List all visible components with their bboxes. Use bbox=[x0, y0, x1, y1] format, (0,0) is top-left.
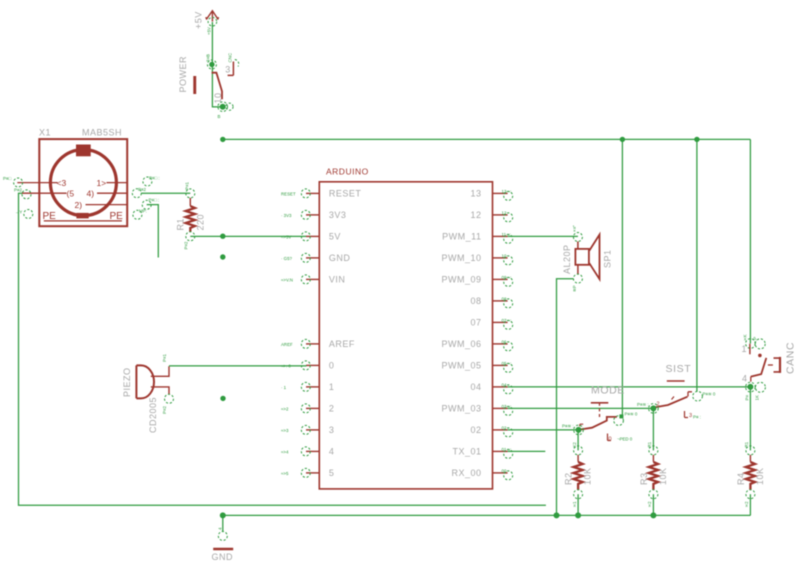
U1 pin 2 bbox=[281, 404, 334, 414]
svg-text:X1: X1 bbox=[39, 128, 51, 138]
svg-text:2: 2 bbox=[329, 404, 335, 414]
wire SIST junction down to R3 bbox=[652, 408, 654, 450]
svg-text:02: 02 bbox=[470, 425, 481, 435]
X1 pin 5 bbox=[39, 192, 66, 194]
svg-text:R3: R3 bbox=[639, 472, 649, 485]
speaker SP1 AL20P bbox=[562, 225, 613, 292]
U1 pin PWM_10 bbox=[441, 253, 512, 265]
node: S1 top pin bbox=[209, 62, 214, 67]
svg-text:10: 10 bbox=[502, 253, 507, 258]
svg-text:CD2005: CD2005 bbox=[148, 397, 158, 433]
wire piezo to arduino pin 0 bbox=[169, 365, 307, 367]
X1 pad circles right bbox=[143, 177, 152, 186]
svg-text:3V3: 3V3 bbox=[329, 210, 347, 220]
svg-text:AREF: AREF bbox=[329, 339, 355, 349]
svg-text:220: 220 bbox=[196, 214, 206, 231]
U1 pin GND bbox=[281, 253, 350, 263]
svg-text:(5: (5 bbox=[67, 189, 75, 199]
svg-text:PWM_03: PWM_03 bbox=[441, 404, 481, 414]
U1 pin 07 bbox=[470, 318, 512, 330]
svg-text:· G5?: · G5? bbox=[281, 256, 293, 261]
svg-text:· 3V3: · 3V3 bbox=[281, 213, 292, 218]
svg-text:PWM_06: PWM_06 bbox=[441, 339, 481, 349]
svg-text:P≡2: P≡2 bbox=[184, 241, 189, 249]
svg-text:≈>5: ≈>5 bbox=[281, 471, 289, 476]
X1 pin 1 bbox=[107, 182, 128, 184]
connector X1 MAB5SH bbox=[3, 128, 160, 227]
node: bus junction R3 bbox=[650, 512, 656, 518]
node: S3 throw contact bbox=[688, 392, 692, 397]
wire rail drop to CANC top pin bbox=[749, 139, 751, 343]
resistor R4 10K bbox=[736, 441, 765, 507]
switch CANC (S4) bbox=[742, 334, 797, 400]
svg-text:0: 0 bbox=[609, 437, 612, 443]
switch SIST (S3) bbox=[637, 363, 716, 420]
S1 NC contact T bbox=[228, 62, 234, 76]
X1 pad circles left bbox=[14, 178, 23, 187]
node: bus junction GND bbox=[220, 512, 226, 518]
wire MODE junction down to R2 bbox=[577, 430, 579, 451]
svg-text:TX_01: TX_01 bbox=[452, 447, 481, 457]
svg-text:≋P: ≋P bbox=[572, 285, 577, 292]
svg-text:1>: 1> bbox=[97, 178, 107, 188]
svg-text:3≡B: 3≡B bbox=[206, 54, 211, 62]
resistor R1 220 bbox=[176, 182, 206, 250]
svg-text:R1: R1 bbox=[744, 441, 749, 447]
node: S4 top pin bbox=[746, 339, 756, 349]
svg-text:AL20P: AL20P bbox=[562, 244, 572, 274]
svg-text:07⊸:: 07⊸: bbox=[502, 318, 512, 323]
svg-text:P≡2: P≡2 bbox=[14, 188, 22, 193]
svg-text:P≡1: P≡1 bbox=[185, 182, 190, 190]
svg-text::P: :P bbox=[753, 337, 758, 341]
svg-text:00: 00 bbox=[502, 468, 507, 473]
U1 pin 4 bbox=[281, 447, 334, 457]
S3 actuator bbox=[667, 380, 685, 382]
svg-text:2: 2 bbox=[657, 402, 660, 408]
svg-text:5V: 5V bbox=[329, 232, 341, 242]
U1 pin TX_01 bbox=[452, 447, 512, 459]
node: bus junction speaker bbox=[554, 512, 560, 518]
node: rail junction to SIST bbox=[694, 137, 699, 142]
wire X1 pin5 to left rail down bbox=[19, 193, 546, 505]
svg-text:08: 08 bbox=[502, 296, 507, 301]
svg-text:≈>4: ≈>4 bbox=[281, 450, 289, 455]
svg-text:¬PED 0: ¬PED 0 bbox=[617, 437, 633, 442]
svg-text:<3: <3 bbox=[57, 178, 67, 188]
ground GND symbol bbox=[212, 515, 234, 562]
svg-text:07: 07 bbox=[470, 318, 481, 328]
S1 actuator bar bbox=[193, 76, 196, 94]
resistor R3 10K bbox=[639, 441, 668, 507]
svg-text:≈>2: ≈>2 bbox=[281, 407, 289, 412]
svg-text:≍K: ≍K bbox=[743, 334, 748, 341]
wire R3 to ground bus bbox=[652, 494, 654, 515]
svg-text:SIST: SIST bbox=[666, 363, 692, 375]
svg-text:10K: 10K bbox=[583, 467, 593, 485]
svg-text:0: 0 bbox=[329, 361, 335, 371]
U1 pin RX_00 bbox=[451, 468, 512, 480]
U1 pin 04 bbox=[470, 382, 512, 394]
svg-text:12: 12 bbox=[502, 210, 507, 215]
svg-text:PE: PE bbox=[43, 211, 57, 222]
S4 top pin stub bbox=[749, 344, 751, 355]
+5V supply symbol bbox=[194, 11, 219, 35]
U1 pin PWM_11 bbox=[442, 232, 513, 244]
svg-text:VIN: VIN bbox=[329, 275, 346, 285]
svg-text:P≡2: P≡2 bbox=[138, 187, 146, 192]
svg-text:3: 3 bbox=[329, 425, 335, 435]
wire rail drop to MODE right contact bbox=[621, 139, 623, 416]
svg-text:10K: 10K bbox=[658, 467, 668, 485]
U1 pin 1 bbox=[281, 382, 334, 392]
svg-text:CNC: CNC bbox=[228, 53, 233, 63]
switch POWER (S1) bbox=[178, 53, 239, 119]
svg-text:R1: R1 bbox=[647, 441, 652, 447]
svg-text:1: 1 bbox=[742, 344, 748, 354]
svg-text:PWM_09: PWM_09 bbox=[441, 275, 481, 285]
svg-text:4: 4 bbox=[329, 447, 335, 457]
svg-text:1K: 1K bbox=[755, 395, 760, 400]
U1 pin 02 bbox=[470, 425, 512, 437]
U1 pin 0 bbox=[281, 361, 334, 371]
U1 pin PWM_03 bbox=[441, 404, 512, 416]
svg-text:P≡: P≡ bbox=[745, 395, 750, 401]
svg-text:10K: 10K bbox=[755, 467, 765, 485]
U1 pin PWM_09 bbox=[441, 275, 512, 287]
svg-text:4: 4 bbox=[742, 374, 748, 384]
svg-text:POWER: POWER bbox=[178, 56, 188, 93]
U1 pin 5V bbox=[281, 232, 341, 242]
U1 pin 3V3 bbox=[281, 210, 346, 220]
U1 pin AREF bbox=[281, 339, 355, 349]
svg-text:R2: R2 bbox=[564, 472, 574, 485]
S3 pin 3 mark bbox=[685, 411, 689, 418]
wire arduino 5V stub already; wire PWM_11 to speaker bbox=[508, 235, 578, 237]
U1 pin PWM_06 bbox=[441, 339, 512, 351]
svg-text:AREF: AREF bbox=[281, 342, 293, 347]
svg-text:04: 04 bbox=[502, 382, 507, 387]
svg-text:P≡1: P≡1 bbox=[162, 354, 167, 362]
svg-text:≍2: ≍2 bbox=[647, 501, 652, 508]
svg-text:≈>V.N: ≈>V.N bbox=[281, 278, 293, 283]
svg-text:PIEZO: PIEZO bbox=[122, 367, 132, 397]
svg-text:K2: K2 bbox=[572, 442, 577, 448]
svg-text:PE: PE bbox=[110, 211, 124, 222]
svg-text:13: 13 bbox=[470, 189, 481, 199]
wire +5V arrow to switch S1 bbox=[212, 22, 222, 107]
svg-text:B: B bbox=[218, 114, 221, 119]
svg-text:PWM_11: PWM_11 bbox=[442, 232, 481, 242]
svg-text:GND: GND bbox=[329, 253, 351, 263]
U1 pin RESET bbox=[281, 189, 361, 199]
wire ground bus bbox=[223, 514, 751, 516]
svg-text:GND: GND bbox=[212, 552, 234, 562]
wire arduino PWM_03 to SIST bbox=[508, 407, 654, 409]
node: +5V rail start junction bbox=[220, 137, 225, 142]
U1 pin 3 bbox=[281, 425, 334, 435]
svg-text:×≡": ×≡" bbox=[572, 225, 577, 232]
S1 lever bbox=[212, 73, 222, 100]
X1 external pin stubs bbox=[17, 182, 39, 184]
wire X1 pin2 dead-end bbox=[147, 205, 159, 258]
IC U1 ARDUINO bbox=[281, 167, 513, 489]
svg-text:P≡□ :: P≡□ : bbox=[149, 198, 160, 203]
svg-text:P≡□: P≡□ bbox=[3, 176, 11, 181]
svg-text:MODE: MODE bbox=[591, 384, 625, 396]
node: S2 common junction bbox=[576, 427, 582, 433]
svg-text:PWM_05: PWM_05 bbox=[441, 361, 481, 371]
node: rail junction to MODE bbox=[620, 137, 625, 142]
S2 lever bbox=[580, 417, 618, 430]
buzzer PZ1 PIEZO CD2005 bbox=[122, 354, 174, 433]
svg-text:4): 4) bbox=[87, 189, 95, 199]
node: stray dot near piezo bbox=[220, 396, 225, 401]
svg-text:· 1: · 1 bbox=[281, 385, 287, 390]
svg-text:P≡≋ 0: P≡≋ 0 bbox=[625, 412, 638, 417]
node: stray dot below 5V wire bbox=[220, 254, 225, 259]
S2 actuator bbox=[591, 402, 609, 404]
svg-text:04: 04 bbox=[470, 382, 481, 392]
U1 pin 5 bbox=[281, 468, 334, 478]
svg-text:RX_00: RX_00 bbox=[451, 468, 481, 478]
X1 pin 3 bbox=[39, 182, 57, 184]
U1 pin 08 bbox=[470, 296, 512, 308]
svg-text:≍1: ≍1 bbox=[572, 501, 577, 508]
U1 pin 13 bbox=[470, 189, 512, 201]
svg-text:08: 08 bbox=[470, 296, 481, 306]
svg-text:RESET: RESET bbox=[329, 189, 362, 199]
svg-text:R1: R1 bbox=[176, 218, 186, 231]
svg-text:3: 3 bbox=[225, 65, 231, 75]
svg-text:CANC: CANC bbox=[785, 342, 797, 374]
svg-text:P≡ :: P≡ : bbox=[693, 415, 701, 420]
wire CANC bottom to R4 bbox=[749, 387, 751, 451]
node: S2 throw contact bbox=[619, 414, 623, 418]
wire X1 pin4 to R1 bbox=[141, 192, 190, 194]
svg-text:2): 2) bbox=[75, 200, 83, 210]
S4 lever bbox=[751, 358, 767, 377]
svg-text:5: 5 bbox=[329, 468, 335, 478]
svg-text:13⊸:: 13⊸: bbox=[502, 189, 512, 194]
wire rail drop to SIST right contact bbox=[696, 139, 698, 391]
svg-text:SP1: SP1 bbox=[603, 249, 613, 268]
svg-text:05⊸:: 05⊸: bbox=[502, 361, 512, 366]
svg-text:RESET: RESET bbox=[281, 192, 296, 197]
node: bus junction R2 bbox=[575, 512, 581, 518]
svg-text:≈>3: ≈>3 bbox=[281, 428, 289, 433]
svg-text:3: 3 bbox=[689, 413, 692, 419]
X1 pin 2 bbox=[86, 204, 128, 206]
svg-text:P≡2: P≡2 bbox=[162, 406, 167, 414]
S4 actuator bbox=[779, 357, 781, 373]
wire arduino 04 to CANC bbox=[508, 386, 751, 388]
svg-text:P≡≋ 0: P≡≋ 0 bbox=[703, 392, 716, 397]
wire +5V rail horizontal bbox=[223, 138, 751, 140]
resistor R2 10K bbox=[564, 442, 593, 508]
svg-text:P≡≋ :: P≡≋ : bbox=[562, 424, 574, 429]
svg-text:PWM_10: PWM_10 bbox=[441, 253, 481, 263]
svg-text:06: 06 bbox=[502, 339, 507, 344]
svg-text:ARDUINO: ARDUINO bbox=[326, 167, 369, 177]
svg-text:02: 02 bbox=[502, 425, 507, 430]
svg-text:MAB5SH: MAB5SH bbox=[82, 128, 122, 138]
svg-text:MP:: MP: bbox=[139, 208, 147, 213]
node: S3 common junction bbox=[650, 405, 656, 411]
svg-text:09⊸:: 09⊸: bbox=[502, 275, 512, 280]
svg-text:P≡□ :: P≡□ : bbox=[149, 176, 160, 181]
svg-text:P≡≋ :: P≡≋ : bbox=[637, 402, 649, 407]
svg-text:12: 12 bbox=[470, 210, 481, 220]
S3 lever bbox=[655, 397, 688, 408]
svg-text:+5V: +5V bbox=[207, 27, 212, 35]
wire R2 to ground bus bbox=[577, 494, 579, 515]
node: S4 bottom junction bbox=[747, 384, 753, 390]
switch MODE (S2) bbox=[562, 384, 638, 442]
wire speaker bottom to ground bus bbox=[557, 279, 574, 516]
U1 pin 12 bbox=[470, 210, 512, 222]
X1 pin 4 bbox=[97, 192, 127, 194]
node: S1 bottom pin bbox=[220, 104, 226, 110]
svg-text:1: 1 bbox=[329, 382, 335, 392]
svg-text:+5V: +5V bbox=[194, 11, 204, 29]
U1 pin VIN bbox=[281, 275, 345, 285]
U1 pin PWM_05 bbox=[441, 361, 512, 373]
svg-text:≍2: ≍2 bbox=[744, 501, 749, 508]
wire arduino TX_01 dead-end bbox=[508, 450, 546, 452]
node: junction on 5V wire bbox=[220, 234, 225, 239]
svg-text:R4: R4 bbox=[736, 472, 746, 485]
wire arduino 02 to MODE bbox=[508, 429, 579, 431]
svg-text:≈>5V: ≈>5V bbox=[281, 235, 291, 240]
wire R4 to ground bus corner bbox=[749, 494, 751, 515]
wire R1 to arduino 5V bbox=[190, 235, 306, 237]
